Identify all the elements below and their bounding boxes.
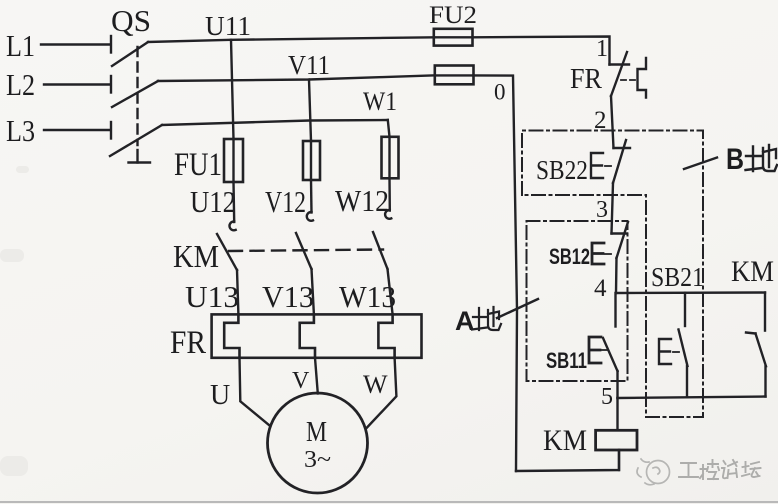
svg-text:V12: V12 bbox=[265, 184, 306, 219]
wire KM aux to node 5 bbox=[764, 366, 766, 396]
svg-text:3~: 3~ bbox=[304, 447, 331, 473]
node U11 bbox=[205, 11, 251, 41]
wire phase V bus bbox=[158, 75, 435, 81]
svg-text:W13: W13 bbox=[339, 279, 396, 314]
button SB12 seat bbox=[612, 232, 628, 234]
thermal contact FR actuator bracket bbox=[638, 58, 647, 98]
node W motor lead bbox=[363, 370, 388, 399]
button SB21 blade bbox=[679, 330, 688, 367]
node 5 bbox=[601, 384, 613, 410]
wire node 4 bus bbox=[616, 291, 765, 294]
thermal relay FR box bbox=[212, 314, 422, 357]
svg-text:1: 1 bbox=[596, 36, 608, 62]
wire W to motor bbox=[367, 358, 396, 428]
button SB22 label bbox=[536, 155, 588, 185]
button SB12 label bbox=[549, 244, 590, 269]
motor M circle bbox=[268, 393, 368, 493]
contact KM aux blade tick bbox=[746, 333, 756, 334]
scan artifact bottom edge line bbox=[0, 501, 778, 503]
scan artifact smudge left bbox=[0, 166, 29, 476]
contactor KM label bbox=[173, 238, 219, 274]
svg-text:A: A bbox=[455, 306, 475, 336]
wire V11 drop bbox=[309, 80, 311, 142]
node W13 bbox=[339, 279, 396, 314]
wire SB12 to node 4 bbox=[615, 258, 618, 293]
node L2 bbox=[6, 67, 35, 102]
switch QS pole 3 blade bbox=[110, 125, 162, 156]
fuse FU1 phase V bbox=[303, 141, 320, 180]
terminal L1 of switch QS bbox=[110, 36, 112, 53]
node 1 bbox=[596, 36, 608, 62]
switch QS pole 1 blade bbox=[112, 42, 148, 66]
wire KM3 to FR bbox=[388, 269, 393, 314]
wire SB22 to node 3 bbox=[612, 183, 614, 234]
svg-text:FR: FR bbox=[570, 63, 603, 95]
thermal relay FR heater U bbox=[224, 314, 239, 357]
switch QS pole 2 blade bbox=[112, 81, 158, 107]
enclosure A location box dash-dot bbox=[527, 221, 628, 381]
wire node 5 bus bbox=[618, 397, 766, 399]
coil KM label bbox=[543, 424, 587, 457]
button SB11 upper stub bbox=[614, 293, 616, 327]
svg-text:U: U bbox=[210, 380, 230, 411]
wire KM1 to FR bbox=[237, 270, 238, 314]
thermal contact FR label bbox=[570, 63, 603, 95]
thermal contact FR blade bbox=[611, 52, 627, 96]
wire U11 drop bbox=[231, 40, 234, 139]
node V12 bbox=[265, 184, 306, 219]
svg-text:U13: U13 bbox=[185, 279, 239, 314]
wire fuse V to contact bbox=[310, 180, 313, 213]
button SB11 operator link bbox=[602, 349, 607, 351]
node U motor lead bbox=[210, 380, 230, 411]
button SB21 operator link bbox=[673, 351, 679, 353]
node U13 bbox=[185, 279, 239, 314]
wire L2 feed bbox=[44, 83, 110, 85]
thermal contact FR seat bbox=[610, 63, 630, 65]
thermal contact FR actuator dashes bbox=[621, 79, 636, 81]
fuse FU1 phase W bbox=[382, 137, 399, 179]
contactor KM linkage dashed bbox=[229, 250, 383, 252]
contact KM aux blade bbox=[756, 334, 767, 367]
svg-text:W12: W12 bbox=[335, 183, 389, 218]
button SB22 operator E bbox=[591, 153, 603, 178]
button SB11 label bbox=[546, 348, 587, 373]
thermal relay FR heater V bbox=[300, 314, 315, 357]
node L3 bbox=[6, 113, 35, 148]
button SB12 operator E bbox=[592, 243, 604, 264]
wire fuse FU2 upper to FR contact bbox=[473, 37, 610, 65]
svg-text:0: 0 bbox=[494, 80, 506, 105]
motor 3-phase label bbox=[304, 447, 331, 473]
node L1 bbox=[6, 28, 35, 63]
button SB12 blade bbox=[617, 222, 629, 258]
svg-text:L1: L1 bbox=[6, 28, 35, 63]
svg-text:V11: V11 bbox=[288, 50, 330, 80]
wire phase U bus bbox=[148, 37, 434, 42]
button SB22 operator link bbox=[605, 165, 611, 167]
contact KM aux label bbox=[731, 255, 774, 288]
button SB12 operator link bbox=[605, 253, 611, 255]
button SB21 operator E bbox=[659, 339, 671, 364]
terminal L3 of switch QS bbox=[110, 122, 112, 139]
wire bottom return bbox=[516, 450, 619, 471]
thermal relay FR label bbox=[170, 325, 206, 361]
node U12 bbox=[190, 184, 236, 219]
terminal L2 of switch QS bbox=[110, 76, 112, 93]
wire L3 feed bbox=[44, 129, 110, 131]
switch QS label bbox=[111, 3, 151, 38]
node 4 bbox=[594, 275, 607, 302]
button SB21 upper stub bbox=[684, 293, 686, 326]
svg-text:SB11: SB11 bbox=[546, 348, 587, 373]
button SB11 blade bbox=[603, 338, 618, 371]
svg-text:L3: L3 bbox=[6, 113, 35, 148]
fuse FU1 label bbox=[174, 147, 222, 183]
fuse FU2 label bbox=[429, 2, 477, 29]
node 2 bbox=[594, 107, 607, 134]
svg-text:SB12: SB12 bbox=[549, 244, 590, 269]
wire SB21 to node 5 bbox=[686, 366, 688, 397]
wire L1 feed bbox=[41, 43, 110, 45]
contactor KM main contact 3 blade bbox=[373, 232, 388, 269]
watermark logo swirl bbox=[637, 459, 670, 485]
watermark text bbox=[679, 460, 761, 479]
fuse FU1 phase U bbox=[224, 139, 243, 182]
node 0 bbox=[494, 80, 506, 105]
svg-text:FU1: FU1 bbox=[174, 147, 222, 183]
button SB22 blade bbox=[613, 140, 626, 183]
svg-text:SB21: SB21 bbox=[651, 262, 704, 292]
enclosure B location box dash-dot bbox=[522, 131, 703, 418]
button SB21 label bbox=[651, 262, 704, 292]
svg-text:SB22: SB22 bbox=[536, 155, 588, 185]
wire KM2 to FR bbox=[312, 269, 314, 314]
switch QS linkage dashed bbox=[136, 47, 138, 145]
fuse FU2 upper bbox=[434, 29, 473, 46]
svg-text:M: M bbox=[306, 417, 327, 448]
label B location pointer bbox=[684, 158, 717, 170]
wire coil to bottom return bbox=[618, 450, 620, 470]
wire fuse FU2 lower to 0 line bbox=[474, 75, 518, 471]
contactor KM main contact 2 blade bbox=[296, 233, 312, 269]
node V11 bbox=[288, 50, 330, 80]
svg-text:U12: U12 bbox=[190, 184, 236, 219]
contact KM aux upper stub bbox=[764, 293, 766, 331]
motor M label bbox=[306, 417, 327, 448]
label B location text bbox=[726, 143, 777, 176]
contact KM pole 2 top hook bbox=[307, 212, 313, 221]
wire SB11 to node 5 bbox=[616, 371, 618, 398]
button SB22 seat bbox=[614, 147, 631, 149]
svg-text:3: 3 bbox=[596, 197, 608, 223]
svg-text:B: B bbox=[726, 143, 744, 176]
node 3 bbox=[596, 197, 608, 223]
button SB11 operator E bbox=[589, 337, 601, 363]
svg-text:KM: KM bbox=[173, 238, 219, 274]
label A location text bbox=[455, 306, 501, 336]
svg-text:KM: KM bbox=[543, 424, 587, 457]
svg-text:W: W bbox=[363, 370, 388, 399]
svg-text:V: V bbox=[292, 368, 310, 394]
node W1 bbox=[363, 87, 397, 116]
wire W1 drop bbox=[388, 120, 390, 137]
switch QS linkage end bar bbox=[129, 150, 151, 163]
contact KM pole 3 top hook bbox=[385, 210, 391, 219]
label A location pointer bbox=[497, 299, 538, 318]
node V motor lead bbox=[292, 368, 310, 394]
wire V to motor bbox=[315, 358, 318, 394]
svg-text:KM: KM bbox=[731, 255, 774, 288]
svg-text:W1: W1 bbox=[363, 87, 397, 116]
coil KM rectangle bbox=[596, 430, 637, 450]
contactor KM main contact 1 blade bbox=[217, 234, 237, 270]
svg-text:L2: L2 bbox=[6, 67, 35, 102]
node W12 bbox=[335, 183, 389, 218]
svg-text:FR: FR bbox=[170, 325, 206, 361]
wire node 5 to coil bbox=[616, 398, 618, 430]
wire fuse U to contact bbox=[232, 182, 235, 222]
thermal relay FR heater W bbox=[378, 314, 394, 357]
wire U to motor bbox=[240, 358, 270, 425]
wire phase W bus bbox=[162, 120, 388, 125]
wire FR to node 2 bbox=[611, 96, 614, 148]
svg-text:5: 5 bbox=[601, 384, 613, 410]
wire fuse W to contact bbox=[388, 178, 391, 210]
svg-text:FU2: FU2 bbox=[429, 2, 477, 29]
contact KM pole 1 top hook bbox=[229, 221, 235, 230]
svg-text:QS: QS bbox=[111, 3, 151, 38]
svg-text:U11: U11 bbox=[205, 11, 251, 41]
fuse FU2 lower bbox=[435, 66, 474, 85]
svg-text:V13: V13 bbox=[262, 279, 314, 314]
svg-text:4: 4 bbox=[594, 275, 607, 302]
node V13 bbox=[262, 279, 314, 314]
